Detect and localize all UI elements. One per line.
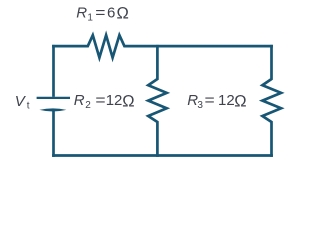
battery V1 bottom plate (lens) xyxy=(39,108,66,111)
svg-text:=: = xyxy=(95,5,105,22)
wire bottom xyxy=(52,154,273,157)
label V_t (source voltage) xyxy=(15,93,30,112)
svg-text:Ω: Ω xyxy=(234,92,246,110)
svg-text:12: 12 xyxy=(106,92,123,109)
wire middle branch with resistor R2 xyxy=(148,45,167,157)
label R2 = 12 ohm xyxy=(74,92,135,111)
label R1 = 6 ohm xyxy=(76,5,129,24)
svg-text:t: t xyxy=(27,100,30,111)
svg-text:3: 3 xyxy=(197,100,203,111)
svg-text:6: 6 xyxy=(107,5,115,22)
wire left upper (to battery + plate) xyxy=(52,45,55,97)
svg-text:Ω: Ω xyxy=(117,5,129,23)
battery V1 top plate xyxy=(37,97,70,99)
svg-text:=: = xyxy=(95,92,105,109)
label R3 = 12 ohm xyxy=(187,92,246,111)
wire right side with resistor R3 xyxy=(262,45,281,157)
svg-text:R: R xyxy=(74,92,85,109)
svg-text:=: = xyxy=(205,92,215,109)
svg-text:12: 12 xyxy=(218,92,235,109)
svg-text:Ω: Ω xyxy=(122,92,134,110)
svg-text:R: R xyxy=(76,5,87,22)
svg-text:V: V xyxy=(15,93,27,110)
wire top with resistor R1 xyxy=(52,35,273,57)
svg-text:1: 1 xyxy=(87,12,93,23)
svg-text:2: 2 xyxy=(85,100,91,111)
wire left lower (from battery - plate) xyxy=(52,111,55,157)
